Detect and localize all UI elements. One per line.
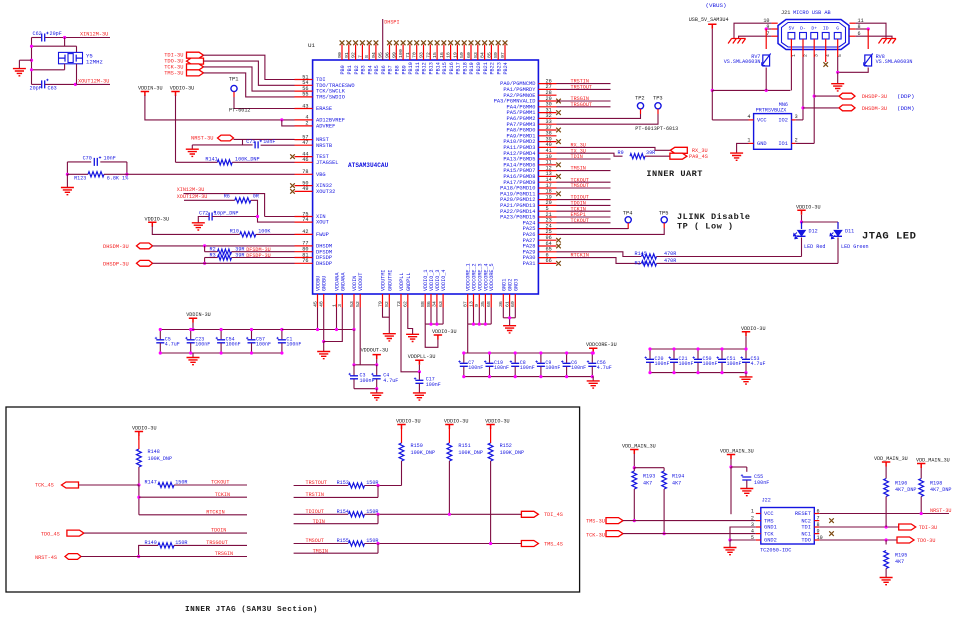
wire VDD to VCC pin	[730, 467, 732, 514]
J21 pin 10	[771, 22, 777, 24]
svg-text:NRST-4S: NRST-4S	[35, 555, 57, 561]
wire DHSDP to pin 76	[153, 262, 295, 264]
U1 top pin 59 PB18	[463, 45, 465, 61]
junction	[376, 542, 379, 545]
wire net TCKOUT	[557, 222, 611, 224]
svg-text:52: 52	[355, 301, 361, 307]
J22 pin 6 RESET	[814, 513, 819, 515]
junction	[920, 512, 923, 515]
svg-text:TDOIN: TDOIN	[211, 528, 226, 534]
U1 top pin 16 PB15	[443, 45, 445, 61]
wire down	[138, 485, 140, 515]
wire	[152, 226, 239, 234]
wire	[377, 544, 379, 554]
resistor R146 470R	[642, 261, 657, 266]
svg-text:78: 78	[302, 169, 308, 175]
svg-text:R152: R152	[500, 443, 512, 449]
wire IO2 to D-	[796, 119, 803, 121]
chassis ground left	[728, 39, 746, 44]
wire pin11 to chassis	[856, 23, 886, 38]
wire TRSGIN	[81, 556, 247, 558]
wire NRST to pin 57	[234, 138, 295, 140]
chassis ground right	[879, 39, 897, 44]
resistor R150 100K_DNP	[399, 443, 404, 461]
wire G down	[837, 57, 839, 72]
U1 top pin 96 PB7	[389, 45, 391, 61]
junction	[137, 483, 140, 486]
capacitor C70 10nF	[94, 158, 97, 166]
svg-text:R151: R151	[458, 443, 470, 449]
resistor R194 lead	[663, 468, 665, 471]
wire RESET NRST-3U	[819, 513, 949, 515]
junction	[375, 363, 378, 366]
U1 top pin 18 PB16	[450, 45, 452, 61]
U1 left pin 74 XOUT	[295, 221, 313, 223]
wire	[837, 222, 839, 229]
ground	[383, 334, 396, 341]
connector TDO-3U	[187, 58, 204, 64]
svg-text:R154: R154	[337, 509, 349, 515]
U1 top pin 99 PB8	[395, 45, 397, 61]
power VDD_MAIN_3U tee	[630, 450, 638, 455]
U1 left pin 75 XIN	[295, 216, 313, 218]
wire GND1 down	[502, 308, 504, 318]
wire	[18, 60, 20, 68]
svg-text:93: 93	[419, 52, 425, 58]
junction	[711, 89, 714, 92]
U1 left pin 4 AD12BVREF	[295, 119, 313, 121]
svg-text:92: 92	[351, 52, 357, 58]
power VDDCORE-3U tee	[589, 348, 597, 353]
wire VDDCORE down	[473, 308, 475, 325]
svg-text:NC1: NC1	[801, 531, 811, 537]
connector TCK-3U	[606, 531, 623, 537]
wire VDDIN bus down to VDDOUT bank	[353, 330, 355, 365]
wire D12 cathode to R145	[801, 238, 803, 257]
svg-text:D+: D+	[811, 26, 817, 32]
svg-text:6.8K 1%: 6.8K 1%	[107, 175, 129, 181]
wire TCK-3U to U1	[204, 67, 295, 91]
U1 left pin 55 TMS/SWDIO	[295, 96, 313, 98]
svg-text:20pF: 20pF	[30, 85, 42, 91]
svg-text:R193: R193	[643, 474, 655, 480]
J21 pin 11	[850, 22, 856, 24]
wire	[376, 359, 378, 365]
junction	[137, 496, 140, 499]
svg-text:100K_DNP: 100K_DNP	[500, 450, 525, 456]
resistor R10	[240, 232, 256, 237]
svg-text:JTAGSEL: JTAGSEL	[316, 160, 339, 166]
test point TP3	[655, 103, 661, 109]
U1 right pin 32 PA6/PGMM2	[538, 117, 556, 119]
J22 pin 9 NC1	[814, 533, 819, 535]
connector TDO-3U	[897, 537, 914, 543]
MN6 VCC stub	[749, 119, 754, 121]
ground	[192, 223, 205, 230]
svg-text:8: 8	[364, 55, 370, 58]
capacitor C4 lead	[376, 365, 378, 376]
wire VDDIO down to R141	[175, 96, 177, 163]
wire D- down to IO2	[802, 57, 804, 120]
svg-text:VDDIO_3: VDDIO_3	[435, 270, 441, 291]
svg-text:60: 60	[466, 52, 472, 58]
wire R150 down	[401, 461, 403, 486]
J21 pin 8	[850, 28, 856, 30]
wire VDDIO bus to tee	[425, 324, 438, 347]
J22 pin 2 TMS	[756, 520, 761, 522]
junction	[836, 71, 839, 74]
power VDDPLL-3U tee	[415, 360, 423, 365]
svg-text:96: 96	[385, 52, 391, 58]
wire to C55	[731, 466, 747, 468]
svg-text:VBG: VBG	[316, 172, 326, 178]
wire to NRSTB pin 47	[261, 144, 295, 146]
svg-text:U1: U1	[308, 42, 316, 49]
wire D+ down to IO1	[813, 57, 815, 143]
wire IO1 to D+	[796, 142, 815, 144]
svg-text:TCK-3U: TCK-3U	[586, 533, 605, 539]
wire TP2 to pin 32	[557, 114, 641, 118]
U1 top pin 92 PB2	[355, 45, 357, 61]
svg-text:TCKIN: TCKIN	[215, 492, 230, 498]
junction	[489, 542, 492, 545]
U1 right pin 30 PA4/PGMM0	[538, 106, 556, 108]
wire VDDCORE bus	[468, 323, 492, 325]
wire	[192, 323, 194, 330]
junction	[376, 513, 379, 516]
U1 top pin 84 PB21	[484, 45, 486, 61]
svg-text:99: 99	[391, 52, 397, 58]
wire	[64, 38, 66, 47]
svg-text:PB4: PB4	[367, 65, 373, 74]
wire DHSDM to pin 77	[153, 245, 295, 247]
svg-text:DHSDP-3U: DHSDP-3U	[862, 94, 887, 100]
wire R10 to FWUP	[256, 233, 295, 235]
svg-text:R9: R9	[618, 150, 624, 156]
svg-text:74: 74	[302, 217, 308, 223]
svg-text:R10: R10	[230, 228, 239, 234]
U1 left pin 77 DHSDM	[295, 245, 313, 247]
power VDDIO-3U tee	[742, 332, 750, 337]
U1 bottom pin 73 VDDPLL	[400, 294, 402, 308]
test point TP5	[661, 217, 667, 223]
ground	[740, 377, 753, 384]
J22 pin 5 GND2	[756, 539, 761, 541]
svg-text:VDDIO-3U: VDDIO-3U	[170, 86, 195, 92]
svg-text:TDI: TDI	[801, 525, 811, 531]
svg-text:100nF: 100nF	[195, 342, 210, 348]
wire bus	[712, 89, 790, 91]
wire pin7 to chassis	[739, 36, 772, 38]
wire	[711, 90, 713, 120]
connector TDI-3U	[187, 52, 204, 58]
U1 right pin 6 PA30	[538, 257, 556, 259]
U1 right pin 40 PA11/PGMD3	[538, 146, 556, 148]
U1 bottom pin 52 VDDOUT	[359, 294, 361, 308]
svg-text:TDO: TDO	[801, 538, 811, 544]
svg-text:46: 46	[302, 157, 308, 163]
svg-text:PRTRSVBUZX: PRTRSVBUZX	[756, 107, 787, 113]
svg-text:PT-6012: PT-6012	[229, 108, 250, 114]
wire GNDUTMI down	[388, 308, 390, 334]
svg-text:TMS/SWDIO: TMS/SWDIO	[316, 95, 345, 101]
svg-text:XOUT12M-3U: XOUT12M-3U	[78, 78, 109, 84]
svg-text:1: 1	[751, 509, 754, 515]
wire TDIOUT	[294, 513, 348, 515]
wire bank top bus	[464, 352, 593, 354]
svg-text:PB19: PB19	[469, 62, 475, 74]
svg-text:TRSGIN: TRSGIN	[215, 551, 233, 557]
capacitor C56 4.7uF	[588, 363, 596, 366]
junction	[352, 363, 355, 366]
svg-text:100K: 100K	[258, 228, 271, 234]
wire RV8 to G net	[838, 68, 869, 73]
svg-text:TP ( Low ): TP ( Low )	[677, 222, 734, 232]
U1 bottom pin 87 VDDCORE_1	[467, 294, 469, 308]
wire TRSTIN	[294, 496, 378, 498]
wire net TRSTIN	[557, 83, 611, 85]
svg-text:4: 4	[751, 529, 754, 535]
power USB_5V_SAM3U4 tee	[708, 24, 716, 29]
junction	[352, 328, 355, 331]
svg-text:13: 13	[468, 301, 474, 307]
J22 pin 1 VCC	[756, 513, 761, 515]
wire GNDANA join	[324, 308, 343, 342]
U1 top pin 93 PB12	[423, 45, 425, 61]
wire TDI	[819, 526, 898, 528]
junction	[191, 328, 194, 331]
wire bank top bus	[650, 348, 746, 350]
wire TMS to J22	[623, 520, 756, 522]
wire TDIN	[294, 523, 378, 525]
junction	[203, 244, 206, 247]
junction	[813, 95, 816, 98]
resistor R193 lead	[633, 468, 635, 471]
connector NRST-4S	[65, 554, 81, 560]
wire	[377, 486, 379, 498]
ground	[406, 334, 419, 341]
ground	[740, 489, 753, 496]
svg-text:10nF: 10nF	[104, 156, 116, 162]
resistor R193 4K7	[632, 471, 637, 489]
U1 top pin 70 PB11	[416, 45, 418, 61]
wire VDDCORE down	[484, 308, 486, 325]
connector DHSDP-3U	[137, 260, 153, 266]
wire TMSOUT	[294, 543, 348, 545]
U1 left pin 78 VBG	[295, 173, 313, 175]
wire D11 cathode to R146	[837, 238, 839, 264]
RV8 top lead	[867, 29, 869, 49]
wire VDDPLL to C17	[401, 308, 419, 372]
wire VDDIN to AD12BVREF	[145, 96, 295, 120]
svg-text:5V: 5V	[789, 26, 795, 32]
svg-text:JLINK Disable: JLINK Disable	[677, 212, 751, 222]
svg-text:79: 79	[377, 301, 383, 307]
connector TCK-3U	[187, 64, 204, 70]
capacitor C6 100nF lead	[566, 353, 568, 363]
wire VDDCORE down	[478, 308, 480, 325]
svg-text:PB21: PB21	[483, 62, 489, 74]
U1 right pin 20 PA21/PGMD13	[538, 204, 556, 206]
svg-text:3: 3	[337, 304, 343, 307]
svg-text:PB15: PB15	[442, 62, 448, 74]
svg-text:XOUT: XOUT	[316, 220, 330, 226]
svg-text:20pF: 20pF	[50, 31, 62, 37]
svg-text:16: 16	[439, 52, 445, 58]
capacitor C3 100nF	[350, 376, 358, 379]
junction	[765, 27, 768, 30]
resistor R145 470R	[642, 254, 657, 259]
svg-text:100K_DNP: 100K_DNP	[458, 450, 483, 456]
connector TDI_4S	[521, 511, 538, 517]
resistor R148 100K_DNP	[137, 449, 142, 467]
svg-text:TDO-3U: TDO-3U	[917, 538, 935, 544]
INNER JTAG (SAM3U Section) box	[6, 407, 580, 592]
U1 bottom pin 35 VDDCORE_4	[484, 294, 486, 308]
svg-text:VDDIO-3U: VDDIO-3U	[396, 419, 421, 425]
svg-text:43: 43	[302, 103, 308, 109]
svg-text:TP4: TP4	[623, 210, 633, 216]
U1 top pin 85 PB22	[490, 45, 492, 61]
wire left rail	[31, 38, 33, 85]
U1 right pin 66 PA31	[538, 262, 556, 264]
U1 right pin 12 PA15/PGMD7	[538, 170, 556, 172]
wire TCK to J22	[623, 533, 756, 535]
wire TP1 to ERASE	[234, 97, 295, 109]
svg-text:LED Green: LED Green	[841, 244, 869, 250]
wire pin 65 to R145	[557, 252, 642, 257]
wire	[377, 514, 379, 523]
svg-text:C63: C63	[48, 85, 57, 91]
svg-text:VDDIO-3U: VDDIO-3U	[432, 329, 457, 335]
U1 bottom pin 36 GND1	[502, 294, 504, 308]
svg-text:35: 35	[480, 301, 486, 307]
capacitor C19 100nF lead	[489, 353, 491, 363]
svg-text:PB10: PB10	[408, 62, 414, 74]
J21 ID pin lead	[825, 39, 827, 62]
junction	[448, 513, 451, 516]
U1 right pin 10 PA13/PGMD5	[538, 158, 556, 160]
svg-text:INNER JTAG (SAM3U Section): INNER JTAG (SAM3U Section)	[185, 606, 318, 614]
wire	[204, 258, 206, 264]
wire pin9 to RV7	[765, 28, 771, 30]
capacitor C7 100nF lead	[463, 353, 465, 363]
svg-text:GND: GND	[757, 141, 767, 147]
svg-text:PB8: PB8	[395, 65, 401, 74]
U1 right pin 26 PA0/PGMNCMD	[538, 83, 556, 85]
wire VDDOUT down	[359, 308, 361, 365]
power VDDIN-3U tee	[189, 318, 197, 323]
wire TMSIN	[294, 552, 378, 554]
U1 top pin 8 PB4	[368, 45, 370, 61]
svg-text:4K7_DNP: 4K7_DNP	[895, 487, 916, 493]
J21 pin 7	[771, 35, 777, 37]
resistor R198 4K7_DNP	[919, 479, 924, 497]
junction	[66, 173, 69, 176]
svg-text:100: 100	[398, 49, 404, 58]
wire VDDIN down	[353, 308, 355, 330]
op-amp U1 ATSAM3U4CAU MCU body	[313, 60, 539, 294]
wire	[32, 45, 77, 47]
power VDDIO-3U tee	[486, 425, 494, 430]
test point TP2	[637, 103, 643, 109]
U1 bottom pin 13 VDDCORE_2	[473, 294, 475, 308]
wire bank bottom bus	[354, 388, 377, 390]
svg-text:VDDIO-3U: VDDIO-3U	[132, 426, 157, 432]
resistor R195 lead	[885, 540, 887, 545]
wire	[633, 454, 635, 468]
wire to ground	[192, 353, 194, 358]
junction	[435, 323, 438, 326]
wire net TDOIN	[557, 204, 611, 206]
capacitor C17 lead	[418, 372, 420, 380]
svg-text:NC2: NC2	[801, 518, 811, 524]
svg-text:55: 55	[302, 92, 308, 98]
wire to ground	[323, 342, 325, 352]
U1 top pin 91 PB1	[348, 45, 350, 61]
wire R9 to PA9_4S	[645, 155, 670, 157]
svg-text:VDD_MAIN_3U: VDD_MAIN_3U	[720, 449, 754, 455]
capacitor C8 100nF lead	[514, 353, 516, 363]
svg-text:PA9_4S: PA9_4S	[689, 154, 708, 160]
svg-text:TCK: TCK	[764, 531, 774, 537]
svg-text:1: 1	[747, 137, 750, 143]
svg-text:C72: C72	[199, 210, 208, 216]
capacitor C62 20pF	[42, 34, 45, 42]
svg-text:GNDPLL: GNDPLL	[406, 273, 412, 291]
power VDDIO-3U tee	[171, 92, 179, 97]
svg-text:PB24: PB24	[503, 62, 509, 74]
capacitor C57 100nF lead	[251, 330, 253, 340]
svg-text:R6: R6	[224, 193, 230, 199]
power VDDIO-3U tee	[148, 222, 156, 227]
svg-text:100nF: 100nF	[256, 342, 271, 348]
J21 pin 6	[850, 35, 856, 37]
junction	[203, 262, 206, 265]
svg-text:D-: D-	[800, 26, 806, 32]
capacitor C6 100nF	[563, 363, 571, 366]
wire	[801, 222, 803, 229]
wire net TRSGIN	[557, 100, 611, 102]
svg-text:VDDOUT: VDDOUT	[358, 273, 364, 291]
wire	[802, 221, 839, 223]
svg-text:VDDCORE_3: VDDCORE_3	[477, 263, 483, 291]
svg-text:C62: C62	[33, 31, 42, 37]
svg-text:VDD_MAIN_3U: VDD_MAIN_3U	[622, 444, 656, 450]
wire R123 to VBG pin 78	[104, 173, 295, 175]
resistor R6 0R	[235, 198, 251, 203]
svg-text:R148: R148	[148, 449, 160, 455]
J22 pin 3 GND1	[756, 526, 761, 528]
svg-text:VDDIO-3U: VDDIO-3U	[485, 419, 510, 425]
wire bank top bus	[354, 364, 377, 366]
ground	[724, 548, 737, 555]
svg-text:VDDIO-3U: VDDIO-3U	[796, 204, 821, 210]
connector DHSDP-3U	[839, 93, 855, 99]
wire	[176, 161, 218, 163]
svg-text:63: 63	[438, 301, 444, 307]
capacitor C21 100nF	[670, 359, 678, 362]
svg-text:GNDUTMI: GNDUTMI	[387, 270, 393, 291]
U1 right pin 5 PA22/PGMD14	[538, 210, 556, 212]
svg-text:PB3: PB3	[361, 65, 367, 74]
wire RX_3U	[557, 147, 671, 150]
svg-text:VDDIN-3U: VDDIN-3U	[186, 312, 211, 318]
svg-text:73: 73	[396, 301, 402, 307]
ground	[61, 188, 74, 195]
connector PA9_4S	[670, 153, 687, 159]
svg-text:66: 66	[546, 258, 552, 264]
